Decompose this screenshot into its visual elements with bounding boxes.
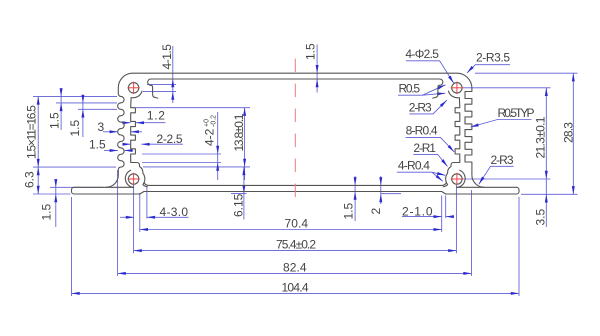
ext boss-left x133.6 <box>133 184 135 253</box>
arrows 2-2.5 <box>123 143 131 146</box>
svg-text:2-R1: 2-R1 <box>413 141 436 155</box>
arrows 4-2 <box>216 146 219 154</box>
ext fin pitch y109.3 <box>78 108 117 110</box>
svg-text:R0.5: R0.5 <box>399 82 421 96</box>
ext 6.15-bottom y193.5 <box>231 193 247 195</box>
leader R0.5 a <box>398 85 446 95</box>
arrows 1.5 top wall <box>316 65 319 73</box>
arrows 104.4 <box>72 292 80 295</box>
ext floor-step-left x139.8 <box>139 193 141 232</box>
svg-text:104.4: 104.4 <box>282 280 309 294</box>
ext flange-top-left y187.3 <box>50 186 103 188</box>
arrow 6.15 <box>242 167 245 175</box>
svg-text:1.5: 1.5 <box>89 138 106 152</box>
arrows 1.5 fin depth <box>110 149 118 152</box>
svg-text:R0.5TYP: R0.5TYP <box>498 106 535 120</box>
dim 2-2.5 line <box>123 143 131 145</box>
ext plate-bottom-right y194.3 <box>521 193 578 195</box>
dim 28.3 line <box>572 73 574 194</box>
dim 82.4 line <box>118 272 472 274</box>
ext plate-left x71.5 <box>71 197 73 296</box>
leader R0.5 b <box>422 93 445 95</box>
svg-text:21.3±0.1: 21.3±0.1 <box>534 116 548 158</box>
svg-text:1.2: 1.2 <box>147 109 165 123</box>
svg-text:+0: +0 <box>204 119 211 127</box>
svg-text:4-1.5: 4-1.5 <box>160 44 174 70</box>
arrows 28.3 <box>572 73 575 81</box>
ext plate-right x519 <box>518 197 520 296</box>
svg-text:13.8±0.1: 13.8±0.1 <box>232 113 246 151</box>
inner top wall line with finger left <box>148 79 440 98</box>
svg-text:2-R3: 2-R3 <box>491 153 514 167</box>
svg-text:82.4: 82.4 <box>283 260 307 274</box>
ext fins-outer-right x471.9 <box>471 190 473 276</box>
svg-text:4-Φ2.5: 4-Φ2.5 <box>405 47 439 61</box>
svg-text:1.5: 1.5 <box>341 202 355 219</box>
crosshair top-left boss <box>127 87 139 89</box>
dim 3.5 line <box>545 179 547 227</box>
leader 8-R0.4 <box>406 137 455 152</box>
leader 2-R3.5 <box>467 65 510 73</box>
ext jaw-right x146.9 <box>146 186 148 219</box>
dim 1.5 top wall line <box>316 45 318 93</box>
crosshair bottom-left boss <box>127 178 139 180</box>
arrows 3 <box>110 130 118 133</box>
svg-text:1.5: 1.5 <box>39 203 53 220</box>
red vertical centerline <box>294 59 296 208</box>
ext boss-bottom-right y179.0 <box>463 178 551 180</box>
arrows 4-3.0 <box>126 216 134 219</box>
dim 4-2 line <box>217 112 219 180</box>
dim 21.3 line <box>545 88 547 179</box>
dim 3 line <box>103 131 118 133</box>
dim 70.4 line <box>140 229 442 231</box>
ext floor-step-right x441.7 <box>441 196 443 233</box>
ext chamfer-right x445.7 <box>445 196 447 219</box>
arrows 82.4 <box>118 272 126 275</box>
svg-text:4-3.0: 4-3.0 <box>160 205 189 219</box>
ext teeth-bottom y166.9 <box>143 166 250 168</box>
screw hole top-right <box>452 83 462 93</box>
ext teeth-top y107.7 <box>136 107 250 109</box>
ext boss-top-right y87.8 <box>463 87 551 89</box>
screw hole top-left <box>128 83 138 93</box>
ext fin-bottom y167.1 <box>33 166 116 168</box>
ext fin-top y96.4 <box>33 95 117 97</box>
dim 1.2 line <box>124 122 131 124</box>
finger right <box>433 79 443 98</box>
screw hole bottom-right <box>452 174 462 184</box>
svg-text:-0.2: -0.2 <box>211 115 218 127</box>
svg-text:1.5: 1.5 <box>68 119 82 136</box>
arrows 13.8 <box>243 108 246 116</box>
dim 1.5 fin pitch B line <box>82 95 84 137</box>
crosshair top-right boss <box>451 87 463 89</box>
leader 4-R0.4 a <box>397 172 445 175</box>
dim 2 floor line <box>380 176 382 204</box>
svg-text:2-R3: 2-R3 <box>409 100 432 114</box>
arrows 6.3 <box>37 167 40 175</box>
ext slot-top y154.0 <box>142 153 221 155</box>
ext top-wall-right y73.2 <box>475 72 578 74</box>
dim 13.8 line <box>244 108 246 180</box>
svg-text:28.3: 28.3 <box>561 122 575 143</box>
flange top inner segment right <box>457 186 484 188</box>
svg-text:2-R3.5: 2-R3.5 <box>476 51 510 65</box>
arrows 1.2 <box>123 121 131 124</box>
ext fin pitch y102.9 <box>56 102 117 104</box>
arrows 21.3 <box>545 88 548 96</box>
dim 6.15 line <box>243 167 245 220</box>
flange top inner segment left <box>106 186 134 188</box>
dim 4-1.5 line <box>172 46 174 103</box>
leader 2-R3 lower <box>479 166 514 184</box>
ext fins-outer-left x117.6 <box>117 170 119 276</box>
crosshair bottom-right boss <box>451 178 463 180</box>
leader arrowheads <box>448 76 455 85</box>
svg-text:1.5: 1.5 <box>304 43 318 60</box>
svg-text:3.5: 3.5 <box>533 208 547 225</box>
svg-text:1.5×11=16.5: 1.5×11=16.5 <box>25 105 39 159</box>
svg-text:6.3: 6.3 <box>23 171 37 188</box>
arrows 1.5 pitch B <box>81 95 84 103</box>
arrows 2 floor <box>379 177 382 185</box>
arrows 70.4 <box>140 228 148 231</box>
svg-text:2-1.0: 2-1.0 <box>402 204 433 218</box>
dim 1.5 fin depth line <box>104 150 118 152</box>
dim 1.5 plate line <box>55 180 57 227</box>
boss top-right ring <box>449 91 460 161</box>
arrows 1.5 floor <box>354 177 357 185</box>
svg-text:4-R0.4: 4-R0.4 <box>398 158 430 172</box>
svg-text:6.15: 6.15 <box>232 193 246 217</box>
boss bottom-right assembly <box>448 161 460 173</box>
svg-text:8-R0.4: 8-R0.4 <box>406 124 438 138</box>
screw hole bottom-left <box>128 174 138 184</box>
arrows 4-1.5 <box>171 79 174 87</box>
dim 4-3.0 line <box>120 216 134 218</box>
ext finger-top y84.4 <box>147 83 176 85</box>
dim 75.4 line <box>134 250 457 252</box>
arrows 1.5 plate <box>54 179 57 187</box>
svg-text:70.4: 70.4 <box>285 217 309 231</box>
svg-text:75.4±0.2: 75.4±0.2 <box>276 238 316 252</box>
svg-text:4-2: 4-2 <box>203 128 217 146</box>
svg-text:2-2.5: 2-2.5 <box>157 132 183 146</box>
dim 2-1.0 line <box>402 216 442 218</box>
leader 2-R3 upper <box>409 100 447 114</box>
ext slot-bottom y162.5 <box>142 162 221 164</box>
arrows 2-1.0 <box>434 215 442 218</box>
dim 1.5 fin pitch A line <box>60 88 62 130</box>
svg-text:2: 2 <box>369 208 383 215</box>
arrows 75.4 <box>134 249 142 252</box>
ext step-bottom y193.7 <box>381 193 401 195</box>
arrows 1.5 pitch A <box>60 88 63 96</box>
arrow 3.5 <box>545 194 548 202</box>
boss bottom-left assembly <box>131 161 143 173</box>
interior floor top <box>144 183 446 186</box>
ext boss-right x456.4 <box>455 185 457 253</box>
leader 2-R1 <box>413 154 447 166</box>
leader R0.5TYP <box>471 120 532 128</box>
outer contour <box>72 73 520 194</box>
ext plate-bottom-left y194.0 <box>33 193 71 195</box>
leader 4-phi2.5 <box>406 61 454 84</box>
svg-text:3: 3 <box>98 120 105 134</box>
dim 1.5x11=16.5 line <box>37 96 39 167</box>
arrows 16.5 <box>37 96 40 104</box>
dim 6.3 line <box>37 167 39 194</box>
boss top-left ring <box>131 91 142 161</box>
leader 4-R0.4 b <box>432 172 443 181</box>
svg-text:1.5: 1.5 <box>47 112 61 129</box>
ext finger-bottom y91.6 <box>143 91 176 93</box>
text 4-2 tol <box>203 115 218 146</box>
dim 104.4 line <box>72 292 520 294</box>
dim 1.5 floor line <box>354 176 356 221</box>
